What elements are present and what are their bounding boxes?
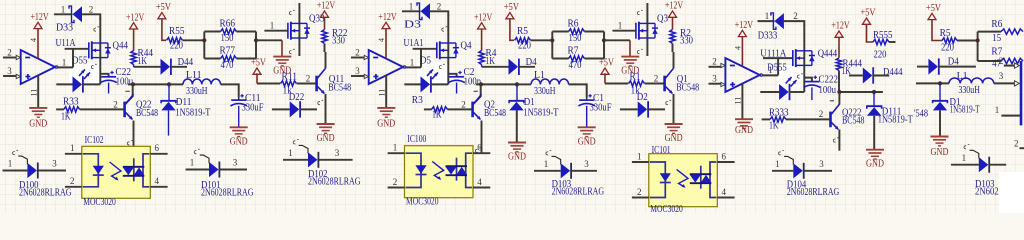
capacitor C222 bottom lead bbox=[811, 87, 813, 100]
thyristor D102 cathode wire bbox=[318, 159, 352, 161]
D111 cathode wire to ground bbox=[873, 116, 875, 150]
junction to gate of Q3 bbox=[602, 38, 606, 42]
op-amp U1A1 pin 4 power wire bbox=[385, 29, 387, 59]
op-amp U1A1 bbox=[369, 50, 403, 84]
ground at Q1 emitter bbox=[665, 123, 683, 125]
svg-text:D2: D2 bbox=[637, 92, 648, 103]
diode D3 cathode wire to MOSFET drain bbox=[430, 11, 449, 16]
MOSFET Q444 drain-source line bbox=[803, 25, 805, 92]
diode D22 anode wire bbox=[272, 108, 290, 110]
svg-text:1: 1 bbox=[70, 143, 75, 153]
MOSFET Q44 bbox=[88, 42, 90, 58]
inductor L1 of block D bbox=[949, 78, 994, 83]
D1 cathode wire to ground bbox=[516, 110, 518, 142]
svg-text:+5V: +5V bbox=[926, 3, 942, 14]
svg-text:D3: D3 bbox=[404, 19, 421, 30]
svg-text:GND: GND bbox=[866, 159, 884, 170]
svg-text:2: 2 bbox=[437, 2, 442, 12]
MOSFET Q33 bbox=[287, 23, 289, 39]
svg-text:1: 1 bbox=[8, 159, 13, 169]
svg-text:3: 3 bbox=[712, 74, 717, 84]
transistor Q11 bbox=[315, 76, 318, 92]
svg-text:D555: D555 bbox=[767, 62, 787, 73]
inductor L1 left wire bbox=[517, 83, 531, 85]
power +12V above op-amp U11A bbox=[34, 22, 42, 28]
IC100 pin 4 wire bbox=[473, 187, 490, 189]
wire R11 to base of Q11 bbox=[297, 83, 316, 85]
IC100 pin 1 wire bbox=[388, 152, 405, 154]
inductor L11 left wire bbox=[169, 83, 183, 85]
MOSFET Q444 bbox=[792, 50, 794, 66]
Q11 emitter wire bbox=[325, 94, 327, 124]
svg-text:15: 15 bbox=[992, 33, 1001, 44]
svg-text:1N5819-T: 1N5819-T bbox=[878, 114, 914, 125]
svg-text:3: 3 bbox=[7, 66, 12, 76]
svg-text:C222: C222 bbox=[819, 74, 839, 85]
capacitor C1 bbox=[579, 99, 594, 101]
power +12V above R22 bbox=[321, 11, 329, 17]
D101 gate mark bbox=[194, 149, 199, 153]
Q222 emitter wire bbox=[838, 130, 840, 151]
LED D5 anode wire bbox=[404, 83, 420, 85]
op-amp of block D left edge bbox=[1020, 61, 1023, 125]
resistor R7 of block D bbox=[978, 60, 1001, 62]
svg-text:Q44: Q44 bbox=[113, 41, 129, 52]
svg-text:1: 1 bbox=[270, 21, 275, 31]
resistor R77 bbox=[221, 56, 237, 61]
transistor Q2 bbox=[471, 102, 474, 118]
ground at op-amp U1A1 pin 11 bbox=[377, 107, 395, 109]
svg-text:1: 1 bbox=[637, 151, 642, 161]
svg-text:R11: R11 bbox=[282, 72, 298, 83]
ground below D1 of block D bbox=[931, 136, 949, 138]
svg-text:220: 220 bbox=[518, 41, 531, 52]
svg-text:330: 330 bbox=[680, 36, 693, 47]
svg-text:R55: R55 bbox=[169, 26, 185, 37]
optocoupler IC101 MOC3020 body bbox=[649, 154, 718, 207]
svg-text:3: 3 bbox=[584, 159, 589, 169]
wire R4 to diode D4 bbox=[482, 66, 509, 68]
svg-text:'548: '548 bbox=[914, 109, 928, 120]
op-amp U111A output pin 1 wire bbox=[762, 74, 778, 76]
capacitor C2 top lead bbox=[448, 74, 456, 77]
svg-text:D1: D1 bbox=[524, 97, 535, 108]
+5V stem to resistor R5 bbox=[932, 20, 942, 41]
C2 minus mark bbox=[474, 90, 478, 92]
ground near Q33 bbox=[273, 56, 291, 58]
LED D55 bbox=[73, 76, 83, 92]
IC102 internal triac bbox=[143, 154, 149, 187]
IC101 pin 4 wire bbox=[717, 197, 734, 199]
junction and diode D11 bbox=[167, 82, 171, 86]
power +5V above R55 bbox=[158, 13, 166, 19]
svg-text:D5: D5 bbox=[420, 55, 431, 66]
svg-text:3: 3 bbox=[355, 66, 360, 76]
svg-text:330uH: 330uH bbox=[186, 86, 208, 97]
white overlay rectangle at bottom right bbox=[999, 172, 1024, 213]
marks near Q3 bbox=[637, 10, 642, 14]
diode D444 bbox=[863, 68, 873, 84]
resistor R7 leads bbox=[552, 58, 568, 60]
resistor R333 left stub bbox=[762, 118, 770, 120]
parallel network left junction bbox=[551, 32, 553, 59]
op-amp U111A bbox=[725, 58, 759, 92]
wire L1 to op-amp pin 3 bbox=[994, 82, 1014, 84]
ground below C1 bbox=[578, 126, 596, 128]
D103 gate mark bbox=[964, 145, 969, 149]
svg-text:2: 2 bbox=[712, 57, 717, 67]
svg-text:4: 4 bbox=[722, 187, 727, 197]
svg-text:2N6028RLRAG: 2N6028RLRAG bbox=[201, 188, 254, 199]
power +5V above R555 bbox=[863, 18, 871, 24]
svg-text:1: 1 bbox=[409, 2, 414, 12]
capacitor C222 top lead bbox=[804, 78, 812, 82]
resistor R2 bbox=[670, 30, 675, 44]
diode D4 cathode wire bbox=[518, 66, 535, 68]
svg-text:D33: D33 bbox=[56, 22, 73, 33]
block D pin 2 wire lower bbox=[1019, 147, 1024, 149]
svg-text:330: 330 bbox=[332, 36, 345, 47]
svg-text:BC548: BC548 bbox=[842, 116, 865, 127]
diode D3 anode wire bbox=[402, 10, 421, 12]
op-amp U111A input pin 3 wire bbox=[709, 83, 722, 85]
resistor R5 of block D bbox=[942, 38, 957, 43]
optocoupler IC100 MOC3020 body bbox=[405, 146, 474, 198]
diode D4 of block D anode wire bbox=[917, 66, 928, 68]
mark near D55 bbox=[91, 64, 96, 68]
svg-text:11: 11 bbox=[734, 97, 743, 105]
svg-text:6: 6 bbox=[477, 143, 482, 153]
wire R44 to diode D44 bbox=[134, 66, 161, 68]
resistor R44 bbox=[131, 51, 136, 65]
svg-text:11: 11 bbox=[377, 89, 386, 97]
svg-text:1: 1 bbox=[190, 158, 195, 168]
svg-text:D44: D44 bbox=[178, 57, 194, 68]
svg-text:+12V: +12V bbox=[665, 1, 684, 12]
svg-text:GND: GND bbox=[317, 133, 335, 144]
svg-text:330uF: 330uF bbox=[590, 103, 612, 114]
op-amp U111A output to gate wire bbox=[777, 58, 779, 75]
svg-text:2N6028: 2N6028 bbox=[975, 187, 1003, 198]
thyristor D101 anode wire bbox=[186, 169, 209, 171]
svg-text:R6: R6 bbox=[991, 19, 1002, 30]
transistor Q1 bbox=[663, 76, 666, 92]
svg-text:GND: GND bbox=[735, 125, 753, 136]
svg-text:R77: R77 bbox=[220, 46, 236, 57]
parallel network left junction of block D bbox=[977, 32, 979, 61]
R4 top lead bbox=[481, 29, 483, 51]
diode D444 cathode wire bbox=[873, 75, 890, 77]
svg-text:2: 2 bbox=[393, 177, 398, 187]
svg-text:150: 150 bbox=[569, 33, 582, 44]
diode D2 bbox=[638, 101, 648, 117]
R44 top lead bbox=[133, 29, 135, 51]
svg-text:U1A1: U1A1 bbox=[404, 38, 424, 49]
svg-text:BC548: BC548 bbox=[484, 108, 506, 119]
D104 gate mark bbox=[779, 151, 784, 155]
+5V stem to R5 bbox=[510, 19, 514, 41]
white patch behind LED D55 bbox=[69, 62, 100, 85]
svg-text:2: 2 bbox=[7, 48, 12, 58]
svg-text:+12V: +12V bbox=[126, 12, 145, 23]
capacitor C22 top lead bbox=[100, 74, 108, 77]
thyristor D103 2N6028 symbol bbox=[979, 157, 989, 172]
svg-text:L1: L1 bbox=[534, 70, 545, 81]
svg-text:2: 2 bbox=[1014, 139, 1019, 149]
thyristor D100 anode wire bbox=[3, 170, 28, 172]
D103 gate mark bbox=[546, 151, 551, 155]
capacitor C2 bottom lead bbox=[456, 83, 458, 94]
resistor R6 of block D bbox=[978, 31, 1001, 33]
thyristor D102 anode wire bbox=[283, 159, 308, 161]
wire +5V to R1 bbox=[605, 83, 628, 85]
svg-text:3: 3 bbox=[335, 148, 340, 158]
transistor Q222 bbox=[829, 112, 832, 128]
svg-text:1: 1 bbox=[410, 57, 415, 67]
wire L11 to capacitor C11 bbox=[221, 84, 239, 97]
svg-text:+12V: +12V bbox=[474, 12, 493, 23]
mark near D33 bbox=[94, 27, 99, 31]
wire lower net to Q2 collector bbox=[476, 83, 517, 85]
IC102 pin 6 wire bbox=[150, 153, 167, 155]
LED D5 bbox=[421, 76, 431, 92]
thyristor D101 cathode wire bbox=[219, 169, 247, 171]
svg-text:4: 4 bbox=[377, 38, 386, 42]
junction and diode D111 bbox=[872, 90, 876, 94]
svg-text:1: 1 bbox=[288, 148, 293, 158]
resistor R77 leads bbox=[204, 58, 220, 60]
op-amp U1A1 output to gate wire bbox=[420, 49, 422, 68]
svg-text:2: 2 bbox=[654, 73, 659, 83]
svg-text:1: 1 bbox=[393, 143, 398, 153]
svg-text:470: 470 bbox=[221, 60, 234, 71]
thyristor D101 2N6028 symbol bbox=[209, 162, 219, 177]
svg-text:+12V: +12V bbox=[378, 12, 397, 23]
svg-text:GND: GND bbox=[578, 137, 596, 148]
LED D555 cathode wire bbox=[789, 91, 804, 93]
svg-text:GND: GND bbox=[230, 137, 248, 148]
R2 top lead bbox=[672, 17, 674, 29]
wire R1 to base of Q1 bbox=[645, 83, 664, 85]
mark near D555 bbox=[797, 74, 802, 78]
thyristor D104 2N6028 symbol bbox=[793, 163, 803, 178]
parallel network right junction bbox=[255, 32, 257, 59]
svg-text:1: 1 bbox=[62, 57, 67, 67]
resistor R3 left stub bbox=[424, 108, 432, 110]
svg-text:GND: GND bbox=[29, 119, 47, 130]
Q22 collector wire bbox=[125, 84, 132, 104]
svg-text:150: 150 bbox=[221, 33, 234, 44]
thyristor D100 2N6028 symbol bbox=[27, 163, 37, 178]
IC101 pin 6 wire bbox=[717, 161, 734, 163]
white patch behind LED D5 bbox=[417, 62, 448, 85]
svg-text:220: 220 bbox=[170, 41, 183, 52]
ground at Q11 emitter bbox=[317, 123, 335, 125]
svg-text:IC101: IC101 bbox=[652, 145, 671, 156]
svg-text:MOC3020: MOC3020 bbox=[650, 204, 683, 213]
diode D4 of block D bbox=[928, 59, 938, 75]
ground below D1 bbox=[508, 142, 526, 144]
R44 bottom lead bbox=[133, 65, 135, 67]
resistor R444 bbox=[836, 58, 841, 71]
svg-text:GND: GND bbox=[931, 147, 949, 158]
D11 lower stub bbox=[168, 110, 170, 135]
IC102 emission arrow bbox=[110, 162, 121, 180]
svg-text:1: 1 bbox=[775, 159, 780, 169]
svg-text:D55: D55 bbox=[72, 55, 88, 66]
resistor R6 leads bbox=[552, 31, 568, 33]
op-amp U1A1 output pin 1 wire bbox=[405, 66, 421, 68]
capacitor C22 bottom lead bbox=[108, 83, 110, 94]
wire R55 to parallel network bbox=[183, 39, 205, 41]
IC102 pin 4 wire bbox=[150, 186, 167, 188]
svg-text:6: 6 bbox=[722, 151, 727, 161]
resistor R5 bbox=[515, 38, 531, 43]
wire L1 to capacitor C1 bbox=[569, 84, 587, 97]
resistor R6 bbox=[569, 29, 585, 34]
op-amp U11A pin 4 power wire bbox=[37, 29, 39, 59]
resistor R55 bbox=[167, 38, 183, 43]
power +12V above R444 bbox=[835, 31, 843, 37]
svg-text:220: 220 bbox=[874, 50, 887, 61]
svg-text:R7: R7 bbox=[568, 46, 579, 57]
block D pin 1 wire bbox=[1001, 115, 1020, 117]
svg-text:R66: R66 bbox=[220, 19, 236, 30]
op-amp U111A pin 4 power wire bbox=[741, 37, 743, 67]
svg-text:2N6028RLRAG: 2N6028RLRAG bbox=[552, 187, 605, 198]
wire junction to ground bbox=[256, 39, 282, 41]
svg-text:BC548: BC548 bbox=[676, 83, 699, 94]
C222 minus mark bbox=[830, 100, 834, 102]
inductor L1 bbox=[531, 79, 569, 84]
LED D55 cathode wire bbox=[82, 83, 100, 85]
svg-text:Q444: Q444 bbox=[818, 48, 838, 59]
wire +5V to R11 bbox=[257, 83, 280, 85]
thyristor D102 2N6028 symbol bbox=[308, 152, 318, 167]
svg-text:1: 1 bbox=[61, 5, 66, 15]
MOSFET Q4 bbox=[436, 42, 438, 58]
svg-text:330uH: 330uH bbox=[534, 86, 556, 97]
capacitor C222 bbox=[804, 81, 819, 83]
LED D5 cathode wire bbox=[430, 83, 448, 85]
ground at op-amp U111A pin 11 bbox=[735, 118, 753, 120]
power +12V above R4 bbox=[478, 23, 486, 29]
svg-text:1N5819-T: 1N5819-T bbox=[175, 108, 211, 119]
svg-text:1N5819-T: 1N5819-T bbox=[523, 108, 559, 119]
svg-text:1: 1 bbox=[995, 105, 1000, 115]
C11 bottom lead bbox=[238, 106, 240, 127]
capacitor C2 bbox=[449, 76, 464, 78]
power +12V above op-amp U1A1 bbox=[382, 22, 390, 28]
diode D2 cathode wire bbox=[648, 108, 665, 110]
svg-text:GND: GND bbox=[377, 119, 395, 130]
resistor R66 leads bbox=[204, 31, 220, 33]
thyristor D100 cathode wire bbox=[38, 170, 66, 172]
svg-text:1K: 1K bbox=[486, 56, 496, 67]
parallel network right junction bbox=[603, 32, 605, 59]
MOSFET Q33 vertical line bbox=[298, 3, 300, 56]
wire R2 to collector of Q1 bbox=[672, 44, 674, 53]
op-amp U11A output pin 1 wire bbox=[57, 66, 73, 68]
IC102 pin 1 wire bbox=[65, 153, 82, 155]
svg-text:1K: 1K bbox=[61, 111, 71, 122]
Q2 base wire bbox=[448, 108, 472, 110]
thyristor D103 2N6028 symbol bbox=[561, 163, 571, 178]
svg-text:+5V: +5V bbox=[504, 2, 520, 13]
svg-text:4: 4 bbox=[155, 176, 160, 186]
svg-text:2: 2 bbox=[89, 5, 94, 15]
diode D44 cathode wire bbox=[170, 66, 187, 68]
svg-text:+5V: +5V bbox=[156, 2, 172, 13]
thyristor D103 anode wire bbox=[534, 170, 561, 172]
svg-text:Q3: Q3 bbox=[657, 14, 668, 25]
power +12V above R44 bbox=[130, 23, 138, 29]
mark near D3 bbox=[442, 27, 447, 31]
diode D2 anode wire bbox=[620, 108, 638, 110]
svg-text:U111A: U111A bbox=[760, 49, 787, 60]
svg-text:+12V: +12V bbox=[735, 20, 754, 31]
svg-text:R6: R6 bbox=[568, 19, 579, 30]
resistor R7 bbox=[569, 56, 585, 61]
svg-text:R555: R555 bbox=[873, 30, 893, 41]
R555 right stub bbox=[889, 41, 896, 43]
svg-text:3: 3 bbox=[999, 71, 1004, 81]
D100 gate mark bbox=[13, 150, 18, 154]
IC102 internal LED bbox=[83, 154, 99, 187]
svg-text:3: 3 bbox=[52, 159, 57, 169]
svg-text:1: 1 bbox=[618, 21, 623, 31]
diode D333 anode wire bbox=[758, 20, 775, 22]
svg-text:3: 3 bbox=[233, 158, 238, 168]
svg-text:R33: R33 bbox=[63, 97, 79, 108]
power +5V above R5 bbox=[506, 13, 514, 19]
ground below D111 bbox=[866, 149, 884, 151]
R4 bottom lead bbox=[481, 65, 483, 67]
op-amp U11A bbox=[21, 50, 55, 84]
svg-text:330uH: 330uH bbox=[958, 85, 980, 96]
svg-text:2: 2 bbox=[999, 56, 1004, 66]
IC100 emission arrow bbox=[432, 161, 443, 179]
diode D22 cathode wire bbox=[300, 108, 317, 110]
svg-text:4: 4 bbox=[477, 177, 482, 187]
svg-text:330uF: 330uF bbox=[242, 103, 264, 114]
svg-text:2: 2 bbox=[306, 73, 311, 83]
D4 cathode wire bbox=[938, 66, 976, 68]
svg-text:2: 2 bbox=[70, 176, 75, 186]
MOSFET Q3 bbox=[635, 23, 637, 39]
svg-text:IC102: IC102 bbox=[85, 135, 104, 146]
C22 minus mark bbox=[126, 90, 130, 92]
svg-text:R5: R5 bbox=[517, 26, 528, 37]
resistor R4 bbox=[479, 51, 484, 65]
R444 bottom lead to lower wire bbox=[839, 71, 845, 93]
svg-text:D4: D4 bbox=[526, 57, 537, 68]
IC100 internal triac bbox=[466, 153, 472, 187]
svg-text:R3: R3 bbox=[412, 95, 423, 106]
power +5V feeding R11 bbox=[253, 68, 261, 74]
svg-text:L11: L11 bbox=[186, 70, 202, 81]
IC100 internal LED bbox=[406, 153, 422, 187]
Q1 emitter wire bbox=[673, 94, 675, 124]
wire junction to ground bbox=[604, 39, 630, 41]
svg-text:R5: R5 bbox=[940, 28, 951, 39]
op-amp U11A pin 11 wire bbox=[37, 75, 39, 108]
thyristor D103 anode wire bbox=[951, 164, 979, 166]
IC101 pin 1 wire bbox=[632, 161, 649, 163]
resistor R66 bbox=[221, 29, 237, 34]
IC102 pin 2 wire bbox=[65, 186, 82, 188]
svg-text:GND: GND bbox=[508, 152, 526, 163]
